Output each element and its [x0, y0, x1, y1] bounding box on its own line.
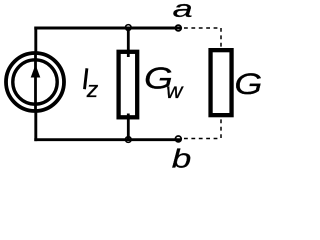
dashed wire: terminal b to G bottom — [184, 138, 221, 140]
current source IZ outer circle — [6, 53, 64, 111]
dashed wire: vertical riser to G bottom — [220, 118, 222, 138]
terminal b node circle — [175, 136, 181, 142]
resistor Gw box — [119, 52, 138, 118]
dashed wire: terminal a to G top — [184, 28, 221, 48]
arrow of current source — [31, 65, 41, 78]
svg-text:z: z — [86, 78, 99, 102]
svg-text:w: w — [166, 78, 184, 102]
wire: vertical stub from Gw to bottom wire — [127, 114, 130, 140]
svg-text:b: b — [172, 144, 192, 173]
label IZ : slanted I bar — [85, 68, 87, 89]
node junction top (Gw tap) — [125, 25, 131, 31]
terminal a node circle — [175, 25, 181, 31]
resistor G box — [211, 50, 232, 115]
svg-text:a: a — [173, 0, 193, 22]
wire: current source shaft — [34, 53, 37, 111]
wire: bottom horizontal from left corner to terminal b — [34, 138, 181, 141]
wire: top horizontal from left corner to terminal a — [34, 27, 181, 30]
svg-text:G: G — [234, 68, 261, 101]
node junction bottom (Gw tap) — [125, 137, 131, 143]
wire: vertical stub from top wire into Gw — [127, 28, 130, 57]
current source IZ inner circle — [13, 60, 57, 104]
wire: left vertical through current source — [34, 27, 37, 142]
